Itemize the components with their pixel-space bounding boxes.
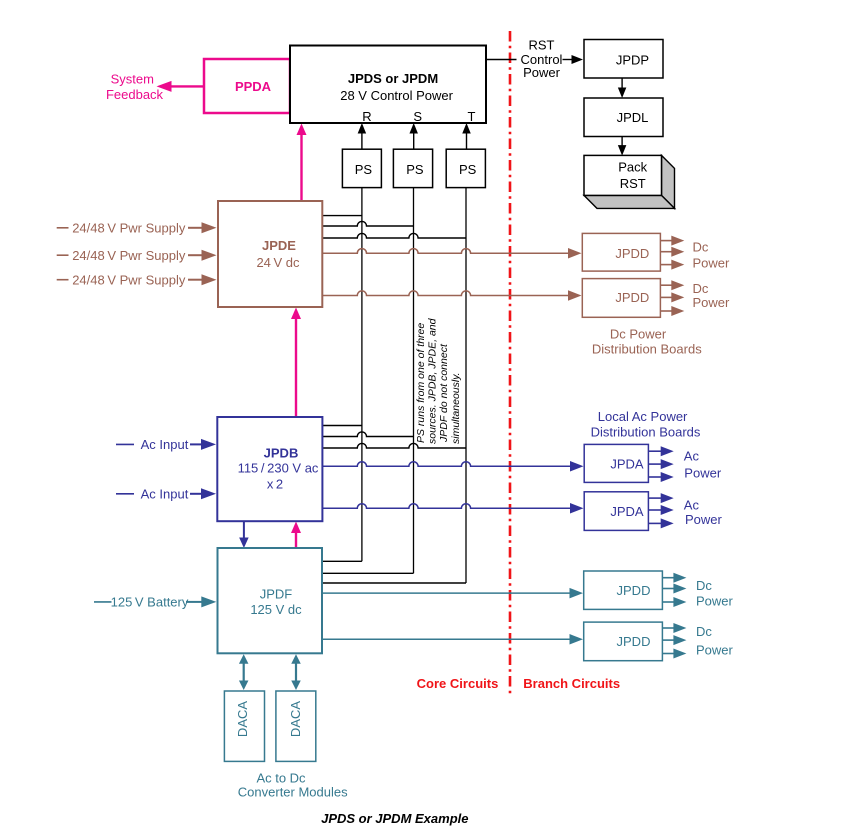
wire PS T to JPDS	[466, 132, 468, 149]
output JPDD4 2	[662, 639, 674, 641]
output JPDA1 3	[648, 476, 661, 478]
wire JPDB to JPDF (blue)	[243, 521, 245, 539]
svg-text:Local Ac Power: Local Ac Power	[598, 409, 688, 424]
svg-text:PS: PS	[406, 162, 424, 177]
svg-text:DACA: DACA	[288, 701, 303, 737]
svg-text:Power: Power	[684, 466, 722, 481]
wire JPDB to bus S	[322, 432, 413, 437]
svg-text:JPDF do not connect: JPDF do not connect	[438, 343, 450, 443]
svg-text:PS: PS	[459, 162, 477, 177]
wire PPDA to System Feedback	[171, 85, 204, 87]
wire JPDB to JPDE (magenta)	[295, 317, 297, 418]
output JPDA1 1	[648, 450, 661, 452]
wire JPDF to bus S	[322, 572, 414, 574]
svg-text:PS: PS	[355, 162, 373, 177]
svg-text:R: R	[362, 109, 371, 124]
svg-text:Converter Modules: Converter Modules	[238, 785, 348, 800]
svg-text:Power: Power	[696, 642, 734, 657]
input 24/48 V Pwr Supply 1	[57, 227, 69, 229]
wire JPDF to DACA at x=296.0	[295, 663, 297, 683]
svg-text:Power: Power	[685, 512, 723, 527]
svg-text:System: System	[111, 71, 154, 86]
wire bus S vertical	[413, 188, 415, 574]
input Ac Input 1	[116, 443, 134, 445]
wire JPDL to Pack RST	[621, 137, 623, 147]
wire JPDF to JPDD3	[322, 592, 571, 594]
divider core/branch circuits	[509, 31, 512, 695]
wire JPDF to bus T	[322, 582, 466, 584]
svg-text:Ac: Ac	[684, 449, 700, 464]
wire PS S to JPDS	[413, 132, 415, 149]
wire JPDF to bus R	[322, 560, 362, 562]
svg-text:JPDA: JPDA	[610, 457, 644, 472]
block JPDP	[584, 40, 663, 79]
svg-text:JPDS or JPDM Example: JPDS or JPDM Example	[321, 811, 468, 826]
svg-text:DACA: DACA	[235, 701, 250, 737]
block DACA 2	[276, 691, 316, 761]
wire PS R to JPDS	[361, 132, 363, 149]
wire JPDS to JPDP (right)	[563, 59, 573, 61]
svg-text:Ac to Dc: Ac to Dc	[256, 771, 306, 786]
svg-text:24/48 V Pwr Supply: 24/48 V Pwr Supply	[72, 220, 186, 235]
svg-text:PS runs from one of three: PS runs from one of three	[415, 323, 427, 443]
svg-text:28 V Control Power: 28 V Control Power	[340, 88, 453, 103]
input 24/48 V Pwr Supply 2	[57, 254, 69, 256]
block JPDD 3	[584, 571, 663, 609]
svg-text:Ac Input: Ac Input	[141, 437, 189, 452]
svg-text:Power: Power	[693, 295, 731, 310]
block PS 1	[342, 149, 381, 187]
svg-text:JPDD: JPDD	[615, 290, 649, 305]
output JPDD2 1	[660, 284, 672, 286]
svg-text:Core Circuits: Core Circuits	[417, 676, 499, 691]
svg-text:Dc: Dc	[696, 578, 712, 593]
svg-text:JPDL: JPDL	[617, 110, 649, 125]
wire JPDB to bus R	[322, 425, 362, 427]
block PPDA	[204, 59, 290, 113]
svg-text:JPDF: JPDF	[260, 587, 293, 602]
svg-text:JPDS or JPDM: JPDS or JPDM	[348, 71, 438, 86]
input 125V Battery	[94, 601, 112, 603]
svg-text:Ac Input: Ac Input	[141, 486, 189, 501]
block JPDS or JPDM	[290, 46, 486, 124]
output JPDD1 1	[660, 240, 672, 242]
output JPDD2 2	[660, 296, 672, 298]
svg-text:T: T	[468, 109, 476, 124]
wire JPDF to DACA at x=243.7	[243, 663, 245, 683]
svg-text:JPDP: JPDP	[616, 52, 649, 67]
wire JPDE to bus S	[322, 221, 413, 226]
block JPDD 2	[582, 279, 660, 318]
wire JPDB to bus T	[322, 443, 466, 448]
output JPDD1 2	[660, 251, 672, 253]
output JPDD3 3	[662, 601, 674, 603]
svg-text:Branch Circuits: Branch Circuits	[523, 676, 620, 691]
block Pack RST (3D)	[662, 155, 675, 208]
svg-text:JPDB: JPDB	[264, 446, 299, 461]
svg-text:115 / 230 V ac: 115 / 230 V ac	[238, 460, 319, 475]
output JPDA2 1	[648, 497, 661, 499]
output JPDA2 3	[648, 522, 661, 524]
input 24/48 V Pwr Supply 3	[57, 279, 69, 281]
block JPDB	[217, 417, 322, 521]
input Ac Input 2	[116, 493, 134, 495]
output JPDD4 3	[662, 653, 674, 655]
svg-text:JPDE: JPDE	[262, 238, 296, 253]
svg-text:24/48 V Pwr Supply: 24/48 V Pwr Supply	[72, 272, 186, 287]
output JPDD3 1	[662, 577, 674, 579]
svg-text:Distribution Boards: Distribution Boards	[591, 425, 701, 440]
svg-text:sources. JPDB, JPDE, and: sources. JPDB, JPDE, and	[426, 317, 438, 444]
output JPDD2 3	[660, 310, 672, 312]
block JPDF	[218, 548, 323, 653]
wire JPDE to JPDD1	[322, 249, 569, 254]
svg-text:S: S	[413, 109, 422, 124]
svg-text:Ac: Ac	[684, 497, 700, 512]
block JPDD 4	[584, 622, 663, 661]
output JPDD1 3	[660, 264, 672, 266]
svg-text:Power: Power	[523, 65, 561, 80]
svg-text:Dc: Dc	[693, 240, 709, 255]
svg-text:Power: Power	[693, 255, 731, 270]
svg-text:125 V dc: 125 V dc	[250, 602, 302, 617]
wire JPDP to JPDL	[621, 78, 623, 89]
block PS 3	[446, 149, 485, 187]
wire JPDE to bus T	[322, 233, 466, 238]
svg-text:JPDD: JPDD	[615, 246, 649, 261]
wire JPDB to JPDA2	[322, 504, 571, 509]
svg-text:Dc: Dc	[693, 281, 709, 296]
svg-text:simultaneously.: simultaneously.	[450, 372, 462, 444]
svg-text:24 V dc: 24 V dc	[256, 255, 300, 270]
wire bus R vertical	[361, 188, 363, 562]
output JPDA2 2	[648, 509, 661, 511]
svg-text:JPDD: JPDD	[617, 583, 651, 598]
wire JPDE to bus R	[322, 215, 362, 217]
block DACA 1	[224, 691, 264, 761]
block JPDA 1	[584, 444, 648, 482]
svg-text:Power: Power	[696, 594, 734, 609]
wire JPDE to JPDS (magenta)	[300, 133, 302, 202]
svg-text:Feedback: Feedback	[106, 87, 164, 102]
svg-text:RST: RST	[529, 37, 555, 52]
svg-text:Dc: Dc	[696, 624, 712, 639]
block JPDD 1	[582, 233, 660, 271]
wire JPDE to JPDD2	[322, 291, 569, 296]
wire JPDS to JPDP (left)	[486, 59, 517, 61]
svg-text:24/48 V Pwr Supply: 24/48 V Pwr Supply	[72, 248, 186, 263]
svg-text:RST: RST	[620, 176, 646, 191]
svg-text:JPDD: JPDD	[617, 634, 651, 649]
block JPDA 2	[584, 492, 648, 531]
wire JPDF to JPDD4	[322, 638, 571, 640]
output JPDA1 2	[648, 463, 661, 465]
wire bus T vertical	[465, 188, 467, 583]
svg-text:x 2: x 2	[267, 477, 283, 492]
svg-text:PPDA: PPDA	[235, 79, 272, 94]
svg-text:JPDA: JPDA	[610, 504, 644, 519]
svg-text:125 V Battery: 125 V Battery	[111, 595, 189, 610]
svg-text:Distribution Boards: Distribution Boards	[592, 342, 702, 357]
output JPDD4 1	[662, 627, 674, 629]
output JPDD3 2	[662, 588, 674, 590]
block JPDE	[218, 201, 322, 307]
svg-text:Dc Power: Dc Power	[610, 326, 667, 341]
block PS 2	[393, 149, 432, 187]
wire JPDB to JPDA1	[322, 462, 571, 467]
svg-text:Pack: Pack	[618, 159, 647, 174]
block JPDL	[584, 98, 663, 137]
wire JPDF to JPDB (magenta)	[295, 531, 297, 549]
